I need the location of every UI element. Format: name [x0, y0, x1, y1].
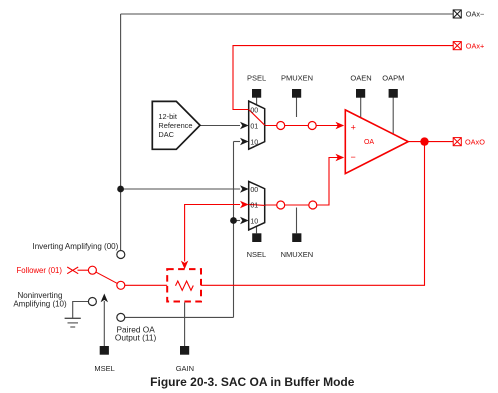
- svg-text:GAIN: GAIN: [176, 364, 194, 373]
- svg-text:10: 10: [250, 218, 258, 225]
- svg-text:00: 00: [250, 187, 258, 194]
- svg-text:OAxO: OAxO: [465, 137, 485, 146]
- svg-text:OAPM: OAPM: [382, 74, 404, 83]
- svg-text:01: 01: [250, 202, 258, 209]
- svg-text:01: 01: [250, 123, 258, 130]
- svg-text:OAEN: OAEN: [350, 74, 371, 83]
- svg-text:PSEL: PSEL: [247, 74, 266, 83]
- svg-text:DAC: DAC: [158, 130, 174, 139]
- svg-text:Follower (01): Follower (01): [17, 266, 63, 275]
- svg-text:Output (11): Output (11): [115, 332, 157, 342]
- svg-text:NMUXEN: NMUXEN: [281, 250, 314, 259]
- svg-text:Reference: Reference: [158, 121, 192, 130]
- svg-text:00: 00: [250, 107, 258, 114]
- svg-text:+: +: [351, 123, 356, 133]
- svg-text:Noninverting: Noninverting: [18, 291, 63, 300]
- svg-text:MSEL: MSEL: [94, 364, 114, 373]
- svg-text:−: −: [350, 152, 355, 162]
- svg-text:12-bit: 12-bit: [158, 112, 177, 121]
- svg-text:Inverting Amplifying (00): Inverting Amplifying (00): [32, 242, 118, 251]
- svg-text:Figure 20-3. SAC OA in Buffer: Figure 20-3. SAC OA in Buffer Mode: [150, 375, 355, 389]
- svg-text:OAx−: OAx−: [466, 10, 484, 19]
- svg-text:Amplifying (10): Amplifying (10): [13, 300, 67, 309]
- svg-text:NSEL: NSEL: [247, 250, 267, 259]
- svg-text:OA: OA: [364, 139, 374, 146]
- svg-text:OAx+: OAx+: [466, 41, 484, 50]
- svg-text:PMUXEN: PMUXEN: [281, 74, 313, 83]
- svg-text:10: 10: [250, 139, 258, 146]
